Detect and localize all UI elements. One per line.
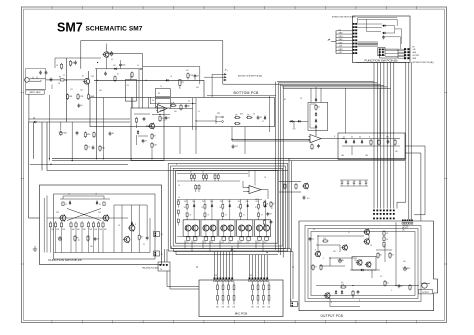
capacitor C16 bbox=[194, 74, 199, 78]
capacitor C2 bbox=[45, 71, 48, 75]
resistor R34 bbox=[263, 201, 269, 208]
svg-text:47: 47 bbox=[261, 215, 263, 217]
resistor R80 bbox=[62, 201, 67, 207]
bias resistor pair B bbox=[202, 171, 208, 181]
diode D25 bbox=[297, 120, 301, 122]
wire bus into mic pcb group A bbox=[215, 252, 233, 278]
power channel 2 feed wires bbox=[205, 200, 212, 204]
relay K1 footprint bbox=[378, 48, 405, 59]
wire loop around power box middle bbox=[171, 166, 286, 249]
svg-text:T100: T100 bbox=[62, 133, 66, 135]
svg-text:B1: B1 bbox=[284, 99, 286, 101]
driver pair box bbox=[352, 257, 376, 271]
value labels bottom pcb bbox=[152, 98, 303, 123]
resistor R38 bbox=[263, 219, 265, 226]
svg-text:1K: 1K bbox=[237, 207, 239, 209]
svg-text:10K: 10K bbox=[251, 307, 254, 309]
value labels rectifier box bbox=[341, 137, 399, 158]
svg-text:1N4: 1N4 bbox=[365, 155, 368, 157]
svg-text:FUNCTION SW PCB (B): FUNCTION SW PCB (B) bbox=[365, 58, 398, 62]
power channel 2 driver resistor bbox=[201, 203, 206, 211]
wire bus left drop B bbox=[33, 122, 35, 159]
svg-text:10K: 10K bbox=[262, 307, 265, 309]
wire rail B bbox=[95, 69, 97, 159]
wires inside function sw pcb bbox=[44, 196, 150, 253]
svg-text:0.22: 0.22 bbox=[257, 242, 260, 244]
wire bus left drop A bbox=[28, 122, 39, 218]
capacitors row above output bus bbox=[340, 180, 368, 186]
svg-text:D4: D4 bbox=[33, 118, 35, 120]
driver box outline bbox=[131, 108, 164, 160]
svg-text:MIC PCB: MIC PCB bbox=[235, 312, 248, 316]
transistor Q11 bbox=[59, 214, 66, 221]
svg-text:1K: 1K bbox=[184, 207, 186, 209]
wire bus right of power box bbox=[279, 159, 301, 252]
svg-text:SP OUT: SP OUT bbox=[402, 228, 408, 230]
svg-text:47: 47 bbox=[272, 204, 274, 206]
svg-text:10K: 10K bbox=[233, 307, 236, 309]
diode D11 bbox=[264, 116, 266, 120]
wire opamp input pair bbox=[232, 139, 310, 141]
node dots upper bbox=[66, 62, 147, 81]
svg-text:0.1: 0.1 bbox=[312, 239, 315, 241]
power channel 2 label 2SC bbox=[202, 200, 213, 203]
svg-text:47: 47 bbox=[145, 141, 147, 143]
power channel 1 driver resistor bbox=[184, 203, 189, 211]
svg-text:0.22: 0.22 bbox=[239, 242, 242, 244]
resistor R59 bbox=[102, 221, 107, 253]
resistor R3 bbox=[77, 94, 84, 101]
svg-text:2SC: 2SC bbox=[256, 201, 259, 203]
connector J5 below bbox=[158, 262, 170, 271]
svg-text:47: 47 bbox=[168, 118, 170, 120]
diode D23 bbox=[315, 125, 317, 129]
power channel 5 transistor Q45b bbox=[264, 225, 270, 231]
svg-text:0.1: 0.1 bbox=[307, 198, 310, 200]
svg-text:1K: 1K bbox=[255, 207, 257, 209]
transistor Q31 bbox=[363, 229, 369, 236]
node dots output pcb bbox=[317, 235, 396, 286]
wire long bus y160.6 bbox=[52, 160, 405, 162]
resistor R6 bbox=[131, 72, 133, 79]
svg-text:10: 10 bbox=[188, 106, 190, 108]
wire right side vertical A bbox=[397, 62, 406, 209]
component block IC2 bbox=[155, 86, 170, 108]
svg-text:(B.FUNCTION SW PCB (B)): (B.FUNCTION SW PCB (B)) bbox=[238, 76, 262, 78]
svg-text:104: 104 bbox=[122, 64, 125, 66]
capacitor C63 bbox=[398, 284, 403, 288]
svg-text:C2: C2 bbox=[63, 75, 65, 77]
capacitor C39 bbox=[270, 220, 273, 224]
resistor R18 bbox=[234, 122, 241, 124]
svg-text:CN1: CN1 bbox=[214, 275, 217, 277]
power channel 3 transistor Q43a bbox=[221, 225, 227, 231]
svg-text:47: 47 bbox=[97, 239, 99, 241]
svg-text:-VE: -VE bbox=[402, 230, 405, 232]
electrolytic capacitor C65 bbox=[402, 266, 409, 271]
diode D24 bbox=[290, 120, 294, 122]
svg-text:GND: GND bbox=[339, 39, 344, 41]
connector CN-B2 pins bbox=[402, 220, 413, 232]
capacitor C64 bbox=[309, 237, 315, 241]
svg-text:4.7: 4.7 bbox=[137, 65, 139, 67]
wire bus horizontal to bottom pcb bbox=[223, 82, 391, 89]
svg-text:D2: D2 bbox=[351, 137, 353, 139]
svg-text:56: 56 bbox=[379, 255, 381, 257]
resistor R68 bbox=[322, 238, 329, 242]
wire vertical drops B1 to power box bbox=[180, 127, 245, 154]
resistor R57 bbox=[92, 221, 97, 253]
rectifier box outline bbox=[338, 133, 405, 159]
resistor R75 bbox=[60, 63, 62, 70]
diode D52 bbox=[382, 32, 386, 34]
capacitor C1 bbox=[39, 71, 42, 75]
input jack J-IN bbox=[25, 69, 46, 90]
function sw pcb 1/6 inner outline bbox=[54, 194, 156, 259]
diode D43 bbox=[229, 204, 231, 208]
transistor Q12 bbox=[102, 214, 109, 221]
resistor R16 bbox=[234, 115, 241, 119]
capacitor C31 bbox=[387, 140, 390, 144]
svg-text:0.22: 0.22 bbox=[186, 242, 189, 244]
svg-text:OUT+: OUT+ bbox=[339, 36, 344, 38]
resistor R50 bbox=[49, 221, 54, 253]
svg-text:10: 10 bbox=[178, 197, 180, 199]
wire bundle to relay bbox=[358, 42, 379, 46]
resistor R31 bbox=[370, 139, 372, 146]
wires inside driver box bbox=[133, 98, 164, 159]
power channel 1 label 2SC bbox=[184, 200, 195, 203]
resistor R19 bbox=[93, 132, 95, 139]
svg-text:SM-8200-P02 (B2): SM-8200-P02 (B2) bbox=[142, 267, 159, 269]
electrolytic capacitor C51 bbox=[57, 236, 61, 241]
ground symbol near function pcb bbox=[33, 246, 37, 251]
capacitor C22 bbox=[232, 145, 238, 149]
resistor R11 bbox=[170, 103, 177, 107]
svg-text:472: 472 bbox=[186, 70, 189, 72]
svg-text:0.22: 0.22 bbox=[246, 242, 249, 244]
svg-text:OUTPUT: OUTPUT bbox=[422, 292, 429, 294]
wires inside rectifier box bbox=[342, 133, 400, 155]
resistor R32 bbox=[378, 139, 380, 146]
feedback network box bbox=[308, 102, 328, 130]
wire verticals below bus bbox=[30, 95, 128, 165]
wire input to R1 bbox=[46, 79, 59, 81]
svg-text:10K: 10K bbox=[83, 229, 86, 231]
wire upper corner bbox=[143, 67, 200, 85]
power channel 3 transistor Q43b bbox=[228, 225, 234, 231]
resistor R37 bbox=[295, 183, 297, 190]
resistor R7 bbox=[176, 80, 184, 89]
svg-text:0.1: 0.1 bbox=[234, 251, 236, 253]
resistor R81 bbox=[99, 201, 105, 207]
capacitor C53 bbox=[146, 236, 149, 240]
bottom pcb main box outline bbox=[90, 98, 274, 127]
connector CN-A mic pcb bbox=[214, 277, 234, 281]
wire power box bottom internal bus bbox=[177, 220, 271, 237]
connector header labels mic bbox=[214, 275, 252, 277]
electrolytic capacitor C3 bbox=[109, 51, 113, 56]
svg-text:D1: D1 bbox=[343, 137, 345, 139]
resistor R66 bbox=[377, 252, 382, 259]
svg-text:10K: 10K bbox=[89, 229, 92, 231]
power channel 1 transistor Q41b bbox=[192, 225, 198, 231]
svg-text:2SC: 2SC bbox=[184, 201, 187, 203]
svg-text:SM7: SM7 bbox=[57, 21, 83, 35]
power channel 2 transistor Q42b bbox=[210, 225, 216, 231]
power channel 3 resistor upper bbox=[222, 208, 230, 220]
resistor R23 bbox=[311, 144, 313, 151]
svg-text:SCHEMAITIC SM7: SCHEMAITIC SM7 bbox=[86, 26, 143, 33]
capacitor C23 bbox=[293, 129, 296, 131]
resistor R58 bbox=[97, 221, 102, 253]
resistor R2 bbox=[66, 94, 73, 101]
bias resistor pair A bbox=[190, 171, 196, 181]
wires around op-amp U2 bbox=[243, 170, 268, 199]
wire bus from function sw pcb B to output pcb bbox=[374, 63, 394, 209]
resistor R73 bbox=[187, 73, 194, 80]
svg-text:10K: 10K bbox=[62, 229, 65, 231]
resistor R1 bbox=[59, 77, 67, 82]
wire long bus y158.7 bbox=[52, 158, 405, 160]
svg-text:GND: GND bbox=[339, 49, 344, 51]
svg-text:0.22: 0.22 bbox=[193, 242, 196, 244]
power channel 1 emitter resistors bbox=[186, 231, 197, 244]
svg-text:+: + bbox=[57, 237, 58, 239]
wire function pcb to mic pcb bbox=[165, 249, 200, 289]
svg-text:56: 56 bbox=[386, 233, 388, 235]
svg-text:CN2: CN2 bbox=[249, 275, 252, 277]
resistor R69 bbox=[409, 284, 411, 291]
capacitor C9 bbox=[109, 132, 114, 136]
svg-text:222: 222 bbox=[235, 146, 238, 148]
svg-text:5.6: 5.6 bbox=[341, 284, 344, 286]
capacitor C5 bbox=[104, 72, 107, 76]
svg-text:5.6: 5.6 bbox=[341, 282, 343, 284]
svg-text:Y1: Y1 bbox=[160, 86, 162, 88]
power channel 5 pair box bbox=[255, 220, 271, 237]
wire jack sleeve down bbox=[28, 94, 30, 122]
wire X cross coupling bbox=[67, 209, 101, 221]
capacitor C12 bbox=[185, 104, 190, 108]
power channel 3 feed wires bbox=[223, 200, 230, 204]
svg-text:J3: J3 bbox=[161, 234, 163, 236]
transistor Q1 bbox=[83, 78, 90, 85]
function sw pcb 1/6 outer outline bbox=[40, 185, 162, 265]
wire rail D bbox=[203, 80, 205, 97]
svg-text:47: 47 bbox=[190, 215, 192, 217]
capacitor C13 bbox=[257, 116, 262, 120]
svg-text:2SC: 2SC bbox=[220, 201, 223, 203]
svg-text:J6: J6 bbox=[290, 299, 292, 301]
svg-text:OUTPUT PCB: OUTPUT PCB bbox=[321, 314, 344, 318]
svg-text:+VE GND: +VE GND bbox=[402, 226, 410, 228]
resistor R51 bbox=[54, 221, 59, 253]
svg-text:100: 100 bbox=[403, 261, 406, 263]
diode D80 bbox=[69, 201, 71, 205]
wire rail A bbox=[66, 58, 68, 122]
wire drops to feedback box bbox=[311, 87, 321, 103]
svg-text:10K: 10K bbox=[257, 307, 260, 309]
svg-text:R16: R16 bbox=[240, 114, 243, 116]
resistor R8 bbox=[151, 133, 157, 140]
resistor R21 bbox=[315, 104, 321, 111]
bias resistor pair D bbox=[214, 174, 219, 182]
capacitor C24 bbox=[317, 144, 320, 148]
capacitor C52 bbox=[94, 237, 99, 241]
svg-text:100K: 100K bbox=[90, 96, 95, 98]
mic pcb group A components bbox=[216, 281, 235, 308]
title text SM7 bbox=[57, 21, 143, 35]
wire right side vertical B bbox=[408, 62, 410, 220]
svg-text:22: 22 bbox=[143, 244, 145, 246]
svg-text:0.22: 0.22 bbox=[264, 242, 267, 244]
svg-text:10K: 10K bbox=[94, 229, 97, 231]
svg-text:10K: 10K bbox=[56, 229, 59, 231]
svg-text:+: + bbox=[402, 267, 403, 269]
resistor R64 bbox=[352, 290, 354, 297]
resistor R55 bbox=[81, 221, 86, 253]
diode D32 bbox=[353, 140, 355, 144]
resistor R8 bbox=[151, 142, 158, 149]
svg-text:R1: R1 bbox=[82, 76, 84, 78]
wire stack inner bbox=[310, 104, 316, 128]
connector CN-OUT pins bbox=[373, 210, 395, 220]
wire B3 feed A bbox=[345, 88, 347, 133]
connector CN3 bbox=[216, 113, 223, 123]
svg-text:10K: 10K bbox=[268, 307, 271, 309]
value labels upper left bbox=[56, 59, 200, 92]
value labels output pcb bbox=[313, 229, 406, 304]
power channel 4 driver resistor bbox=[237, 203, 242, 211]
svg-text:10K: 10K bbox=[77, 229, 80, 231]
wire Q1 collector up bbox=[88, 71, 90, 78]
svg-text:2.2: 2.2 bbox=[87, 147, 90, 149]
svg-text:0.22: 0.22 bbox=[228, 242, 231, 244]
wire loop around power box inner bbox=[173, 168, 283, 246]
wire mid horizontal bbox=[289, 121, 308, 128]
svg-text:10K: 10K bbox=[51, 229, 54, 231]
power channel 1 transistor Q41a bbox=[185, 225, 191, 231]
svg-text:Z1: Z1 bbox=[127, 85, 129, 87]
power channel 4 pair box bbox=[237, 220, 253, 237]
wire Q2 stubs bbox=[105, 44, 107, 69]
svg-text:D3: D3 bbox=[359, 137, 361, 139]
mic pcb group B components bbox=[251, 281, 270, 308]
connector J4 function pcb right bbox=[154, 251, 163, 256]
svg-text:473: 473 bbox=[293, 129, 296, 131]
svg-text:FUNCTION SW PCB 1/6: FUNCTION SW PCB 1/6 bbox=[49, 258, 83, 262]
svg-text:D1: D1 bbox=[117, 74, 119, 76]
svg-text:R1: R1 bbox=[59, 77, 61, 79]
svg-text:10: 10 bbox=[386, 283, 388, 285]
electrolytic capacitor C7 bbox=[58, 131, 67, 136]
svg-text:C3: C3 bbox=[152, 100, 154, 102]
diode D2 bbox=[165, 79, 169, 81]
svg-text:47: 47 bbox=[190, 171, 192, 173]
resistor R54 bbox=[75, 221, 80, 253]
resistor R65 bbox=[384, 280, 389, 287]
svg-text:47: 47 bbox=[260, 117, 262, 119]
diode D51 bbox=[382, 25, 386, 27]
capacitor C10 bbox=[92, 146, 95, 150]
power channel 4 label 2SC bbox=[238, 200, 249, 203]
wire bus left drop C bbox=[41, 122, 43, 171]
wire left bus pair bbox=[28, 119, 130, 122]
svg-text:1K: 1K bbox=[219, 207, 221, 209]
connector J2 right edge pins bbox=[398, 47, 419, 61]
resistor R62 bbox=[320, 264, 322, 271]
capacitor C6 bbox=[143, 117, 146, 121]
capacitor C33 above output pcb bbox=[303, 196, 310, 201]
diode D44 bbox=[246, 204, 248, 208]
resistor R74 bbox=[69, 60, 75, 67]
svg-text:X1: X1 bbox=[158, 93, 160, 95]
svg-text:10: 10 bbox=[112, 133, 114, 135]
resistor R33 bbox=[394, 139, 396, 146]
resistor R67 bbox=[389, 252, 395, 259]
wire JP1 feed B bbox=[204, 76, 223, 78]
svg-text:10K: 10K bbox=[216, 307, 219, 309]
capacitor C11 bbox=[165, 116, 170, 120]
wire feedback down bbox=[315, 129, 317, 136]
svg-text:4.7: 4.7 bbox=[198, 111, 200, 113]
power channel 5 driver resistor bbox=[255, 203, 260, 211]
diode D4 on bus bbox=[33, 118, 36, 124]
svg-text:GND: GND bbox=[339, 33, 344, 35]
svg-text:10K: 10K bbox=[104, 229, 107, 231]
wires inside bottom pcb box bbox=[148, 96, 269, 132]
resistor R4 bbox=[87, 94, 95, 101]
power channel 2 pair box bbox=[201, 220, 217, 237]
label FUNCTION SW PCB (B) bbox=[356, 58, 406, 62]
resistor R53 bbox=[70, 221, 75, 253]
diode D62 bbox=[341, 290, 343, 294]
resistor R20 bbox=[99, 145, 106, 152]
power channel 2 resistor upper bbox=[204, 208, 212, 220]
connector CN-B mic pcb bbox=[249, 277, 268, 281]
transistor Q13 bbox=[128, 224, 135, 231]
diode D41 bbox=[193, 204, 195, 208]
connector JP external bbox=[328, 29, 353, 54]
wire right side vertical E bbox=[405, 153, 421, 221]
diode D42 bbox=[211, 204, 213, 208]
power channel 4 feed wires bbox=[241, 200, 248, 204]
resistor R17 bbox=[246, 115, 253, 119]
capacitor C17 bbox=[74, 61, 77, 65]
svg-text:+: + bbox=[337, 259, 338, 261]
diode D3 bbox=[137, 130, 139, 134]
wire right side vertical D bbox=[405, 146, 425, 215]
capacitor C34 on bus bbox=[231, 246, 236, 253]
svg-text:100: 100 bbox=[407, 268, 410, 270]
power channel 3 emitter resistors bbox=[221, 231, 232, 244]
transistor Q14 bbox=[123, 236, 130, 243]
svg-text:47: 47 bbox=[262, 121, 264, 123]
power channel 2 transistor Q42a bbox=[203, 225, 209, 231]
transistor Q3 bbox=[148, 123, 154, 130]
node junction dots bbox=[231, 121, 294, 140]
resistor R10 bbox=[84, 132, 91, 139]
transistor Q21 bbox=[302, 183, 308, 190]
svg-text:0.22: 0.22 bbox=[210, 242, 213, 244]
wire Q1 emitter down bbox=[88, 85, 90, 95]
svg-text:4.7: 4.7 bbox=[99, 204, 101, 206]
wire right side vertical C bbox=[410, 62, 412, 220]
resistor R91 bbox=[87, 235, 89, 242]
svg-text:47: 47 bbox=[78, 240, 80, 242]
svg-text:104: 104 bbox=[80, 90, 83, 92]
